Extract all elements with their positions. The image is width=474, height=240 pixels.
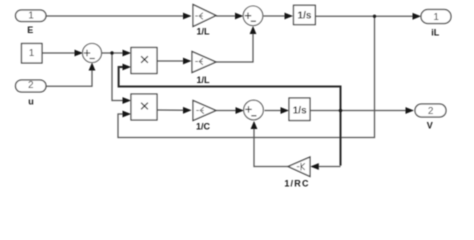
svg-text:V: V	[427, 120, 433, 130]
svg-text:1/L: 1/L	[196, 27, 210, 37]
svg-text:E: E	[27, 25, 33, 35]
svg-text:1: 1	[433, 12, 439, 23]
svg-text:iL: iL	[431, 27, 440, 37]
svg-text:1/s: 1/s	[293, 106, 307, 117]
svg-text:1/s: 1/s	[298, 11, 312, 22]
svg-text:1/RC: 1/RC	[284, 179, 309, 189]
svg-text:2: 2	[428, 106, 434, 117]
svg-text:u: u	[28, 96, 34, 106]
svg-text:2: 2	[28, 80, 34, 91]
svg-text:1/L: 1/L	[196, 75, 210, 85]
svg-text:1: 1	[28, 11, 34, 22]
svg-text:1: 1	[29, 48, 35, 59]
svg-text:1/C: 1/C	[196, 122, 211, 132]
